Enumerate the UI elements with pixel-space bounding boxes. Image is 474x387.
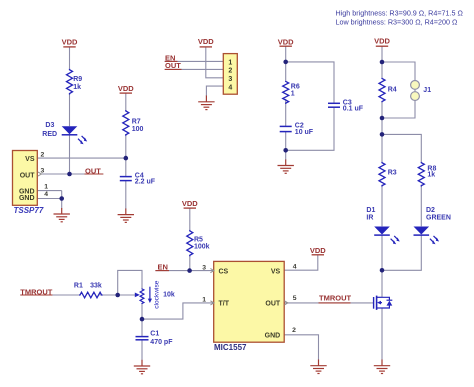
wire D3 cathode to OUT node (69, 135, 71, 174)
svg-text:5: 5 (293, 295, 297, 302)
wire MIC1557 OUT pin5 to MOSFET gate (284, 302, 372, 304)
wire J1 between pins (414, 89, 416, 92)
wire C1 node to C1 (141, 319, 143, 336)
IC TSSP77 box (13, 151, 38, 206)
ground (TSSP77 GND pins) (54, 208, 70, 222)
svg-text:VS: VS (25, 156, 35, 163)
svg-text:1: 1 (202, 297, 206, 304)
node D3/OUT (67, 172, 72, 177)
svg-text:VDD: VDD (118, 84, 134, 93)
ground (MOSFET source) (374, 360, 390, 374)
power VDD (connector) (198, 37, 214, 47)
potentiometer 10k (135, 287, 152, 304)
wire C2 to ground (285, 132, 287, 160)
wire TSSP77 GND pin4 (38, 198, 62, 200)
wire TMROUT to R1 (20, 294, 79, 296)
wire GND pins to ground (61, 191, 63, 209)
net underline TMROUT (MIC1557) (319, 302, 351, 304)
svg-text:T/T: T/T (219, 301, 230, 308)
wire R4 to R3 node (381, 102, 383, 135)
svg-text:R6: R6 (291, 84, 300, 91)
svg-text:CS: CS (219, 268, 229, 275)
LED D3 (62, 126, 87, 144)
label R4 (388, 87, 397, 94)
label C3 value (343, 99, 364, 112)
wire VDD stem to connector pin3 (206, 47, 224, 78)
wire VDD to R4 (381, 46, 383, 77)
pin chevron MIC1557 CS (210, 269, 214, 273)
svg-text:2.2 uF: 2.2 uF (135, 179, 156, 186)
wire R5 to EN node (189, 256, 191, 271)
node VS/R7/C4 (124, 156, 129, 161)
svg-text:1k: 1k (73, 84, 81, 91)
power VDD (C2/R6 branch) (278, 38, 294, 47)
svg-text:R4: R4 (388, 87, 397, 94)
connector J1 pads (411, 81, 420, 101)
svg-text:R7: R7 (132, 119, 141, 126)
svg-text:R5: R5 (194, 236, 203, 243)
svg-text:OUT: OUT (265, 301, 281, 308)
ground (connector pin4) (198, 96, 214, 110)
svg-text:RED: RED (42, 131, 57, 138)
svg-text:100: 100 (132, 126, 144, 133)
pin chevron MIC1557 OUT (284, 301, 288, 305)
wire J1 bottom to R4 node (382, 101, 415, 118)
power VDD (R9 branch) (62, 38, 78, 47)
capacitor C3 (328, 103, 340, 107)
wire VDD to R5 (189, 208, 191, 230)
svg-text:VDD: VDD (62, 38, 78, 47)
wire VDD to R9 (69, 47, 71, 69)
svg-text:R9: R9 (73, 76, 82, 83)
svg-text:2: 2 (292, 327, 296, 334)
svg-text:R1: R1 (74, 283, 83, 290)
wire EN to connector pin1 (165, 60, 224, 62)
svg-text:D1: D1 (366, 207, 375, 214)
label D3 RED (42, 122, 57, 138)
svg-text:470 pF: 470 pF (150, 339, 173, 346)
power VDD (R5 branch) (182, 199, 198, 208)
wire TSSP77 GND pin1 (38, 190, 62, 192)
svg-text:3: 3 (41, 167, 45, 174)
svg-text:1k: 1k (427, 172, 435, 179)
node R5/EN (187, 268, 192, 273)
svg-text:High brightness: R3=90.9 Ω, R4: High brightness: R3=90.9 Ω, R4=71.5 Ω (336, 9, 464, 18)
label R8 value (427, 165, 436, 178)
resistor R8 (418, 162, 424, 187)
svg-text:10k: 10k (163, 292, 175, 299)
power VDD (MIC1557 VS) (310, 246, 326, 255)
label R7 value (132, 119, 144, 134)
svg-text:TSSP77: TSSP77 (14, 206, 44, 215)
net underline EN (connector) (165, 60, 178, 62)
ground (MIC1557 GND) (310, 360, 326, 374)
wire D1 to MOSFET drain (381, 236, 383, 298)
label R6 value (291, 84, 300, 98)
svg-text:2: 2 (228, 68, 232, 75)
IC MIC1557 box (214, 261, 285, 342)
resistor R1 (horizontal) (79, 292, 103, 298)
svg-text:3: 3 (228, 76, 232, 83)
LED D1 (374, 227, 400, 245)
net underline OUT (TSSP77) (85, 173, 104, 175)
pin chevron TSSP77 OUT (38, 172, 42, 176)
svg-text:GND: GND (265, 332, 281, 339)
wire D2 to D1 node (382, 236, 421, 271)
label D2 GREEN (426, 207, 451, 221)
label R1 value (74, 283, 102, 290)
wire R9 to D3 (69, 94, 71, 126)
svg-text:IR: IR (366, 215, 373, 222)
svg-text:D2: D2 (426, 207, 435, 214)
resistor R7 (123, 110, 129, 136)
svg-text:VDD: VDD (278, 38, 294, 47)
wire R7 to C4 through node (125, 134, 127, 176)
wire R8 to D2 (420, 185, 422, 227)
svg-text:1: 1 (291, 91, 295, 98)
node R1/pot (115, 293, 120, 298)
label J1 (423, 87, 431, 94)
label C2 value (295, 123, 314, 137)
svg-text:EN: EN (158, 263, 168, 272)
capacitor C4 (120, 177, 132, 181)
wire C1 node to T/T pin1 (142, 303, 214, 319)
svg-text:4: 4 (293, 264, 297, 271)
svg-text:2: 2 (41, 151, 45, 158)
resistor R4 (379, 78, 385, 103)
node R3/R8 (380, 132, 385, 137)
node R6/C3 top (283, 60, 288, 65)
svg-text:MIC1557: MIC1557 (214, 343, 247, 352)
wire R4 node to J1 top (382, 62, 415, 81)
power VDD (R4 branch) (374, 37, 390, 47)
net underline EN (R5) (155, 270, 169, 272)
wire C3 to bottom node (286, 108, 334, 151)
svg-text:TMROUT: TMROUT (319, 294, 351, 303)
svg-text:10 uF: 10 uF (295, 129, 314, 136)
label R9 value (73, 76, 82, 91)
label 10k pot (163, 292, 175, 299)
connector 1x4 box (223, 54, 237, 95)
svg-text:VS: VS (271, 268, 281, 275)
node pot/C1 (140, 317, 145, 322)
label C4 value (135, 172, 156, 185)
wire MIC1557 VS pin4 to VDD (284, 255, 318, 270)
wire pot bottom to C1 node (141, 303, 143, 319)
svg-text:Low brightness: R3=300 Ω, R4=2: Low brightness: R3=300 Ω, R4=200 Ω (336, 18, 458, 27)
svg-text:OUT: OUT (20, 172, 36, 179)
wire TSSP77 VS pin2 to R7 node (38, 157, 126, 159)
svg-text:GREEN: GREEN (426, 215, 451, 222)
wire R1 to pot node (100, 294, 118, 296)
wire VDD to R6 node (285, 46, 287, 80)
svg-text:0.1 uF: 0.1 uF (343, 106, 364, 113)
wire R6 to C2 (285, 99, 287, 126)
pin chevron MIC1557 T/T (210, 301, 214, 305)
svg-text:C1: C1 (150, 330, 159, 337)
wire C1 to ground (141, 340, 143, 360)
wire EN net to MIC1557 CS pin3 (155, 270, 213, 272)
wire VDD to R7 (125, 93, 127, 110)
label D1 IR (366, 207, 375, 221)
wire TSSP77 OUT pin3 (41, 173, 103, 175)
svg-text:GND: GND (19, 195, 35, 202)
svg-text:100k: 100k (194, 244, 210, 251)
net underline OUT (connector) (165, 68, 182, 70)
resistor R9 (67, 69, 73, 95)
capacitor C2 (280, 126, 292, 131)
wire node to R8 branch (382, 134, 421, 162)
svg-text:3: 3 (202, 264, 206, 271)
node C2/C3 bottom (283, 148, 288, 153)
resistor R6 (283, 81, 289, 104)
svg-text:VDD: VDD (374, 37, 390, 46)
wire MIC1557 GND pin2 to ground (284, 335, 318, 360)
svg-text:J1: J1 (423, 87, 431, 94)
svg-text:OUT: OUT (85, 166, 101, 175)
node R4/J1 bottom (380, 116, 385, 121)
svg-text:4: 4 (44, 191, 48, 198)
LED D2 (414, 227, 440, 245)
note high/low brightness (336, 9, 464, 27)
node R4/J1 top (380, 60, 385, 65)
ground (C4) (118, 209, 134, 223)
wire node to C3 branch (286, 62, 334, 103)
svg-text:D3: D3 (45, 122, 54, 129)
wire MOSFET source to ground (381, 308, 383, 360)
wire pot top loop (118, 270, 142, 295)
label R5 value (194, 236, 210, 250)
power VDD (R7 branch) (118, 84, 134, 93)
svg-text:4: 4 (228, 84, 232, 91)
ground (C1) (134, 360, 150, 374)
wire OUT to connector pin2 (165, 68, 224, 70)
svg-text:TMROUT: TMROUT (20, 287, 52, 296)
resistor R5 (187, 230, 193, 256)
net underline TMROUT (left) (20, 294, 52, 296)
svg-text:1: 1 (228, 59, 232, 66)
label R3 (388, 170, 397, 177)
svg-text:VDD: VDD (198, 37, 214, 46)
svg-text:OUT: OUT (165, 61, 181, 70)
wire C4 to ground (125, 181, 127, 209)
svg-text:1: 1 (44, 184, 48, 191)
transistor Q1 MOSFET with body diode (372, 296, 393, 310)
svg-text:33k: 33k (90, 283, 102, 290)
node TSSP77 GND (59, 196, 64, 201)
svg-text:VDD: VDD (182, 199, 198, 208)
svg-text:clockwise: clockwise (154, 280, 161, 309)
svg-text:R3: R3 (388, 170, 397, 177)
capacitor C1 (136, 337, 149, 340)
ground (C2) (278, 160, 294, 174)
node D1/D2 (380, 268, 385, 273)
wire node to R3 (381, 134, 383, 162)
wire R3 to D1 (381, 185, 383, 227)
wire connector pin4 to ground (206, 86, 223, 96)
label C1 value (150, 330, 173, 346)
resistor R3 (379, 162, 385, 187)
svg-text:VDD: VDD (310, 246, 326, 255)
wire pot wiper (118, 294, 136, 296)
